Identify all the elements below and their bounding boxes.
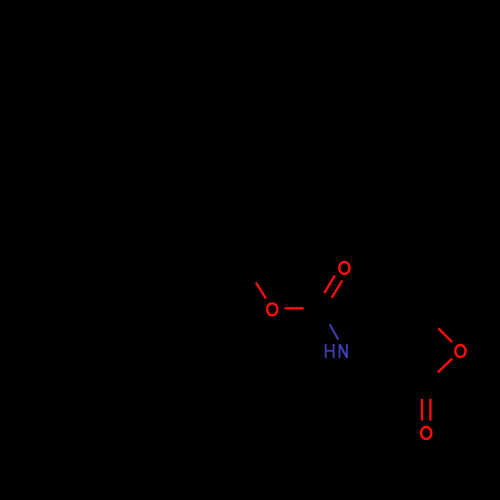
- carbamate carbonyl O (atom label, red): [339, 262, 349, 274]
- carbamate ester O (atom label, red): [267, 303, 277, 315]
- bond O-C(=O) (half-bond near ester O, red, horizontal): [285, 307, 304, 309]
- lactone ring O (atom label, red): [455, 345, 465, 357]
- N diagonal: [340, 344, 348, 357]
- amine HN (atom label, blue): [326, 344, 347, 358]
- ring bond O-C4 (half-bond near ring O, red): [438, 328, 452, 342]
- H left stem: [325, 344, 327, 358]
- lactone C=O double bond, right line (half-bond near O, red): [429, 399, 431, 421]
- H crossbar: [326, 350, 334, 352]
- N left stem: [339, 344, 341, 358]
- bond O-CH2 (half-bond near ester O, red): [256, 283, 266, 299]
- H right stem: [333, 344, 335, 358]
- carbamate C=O double bond, line 2 (half-bond near O, red): [332, 281, 343, 298]
- lactone carbonyl O (atom label, red): [421, 427, 431, 439]
- N right stem: [346, 344, 348, 358]
- lactone C=O double bond, left line (half-bond near O, red): [421, 399, 423, 421]
- ring bond O-C2 (half-bond near ring O, red): [438, 359, 452, 373]
- carbamate C=O double bond, line 1 (half-bond near O, red): [324, 275, 335, 293]
- bond N-C(=O) (half-bond near N, blue): [330, 324, 338, 339]
